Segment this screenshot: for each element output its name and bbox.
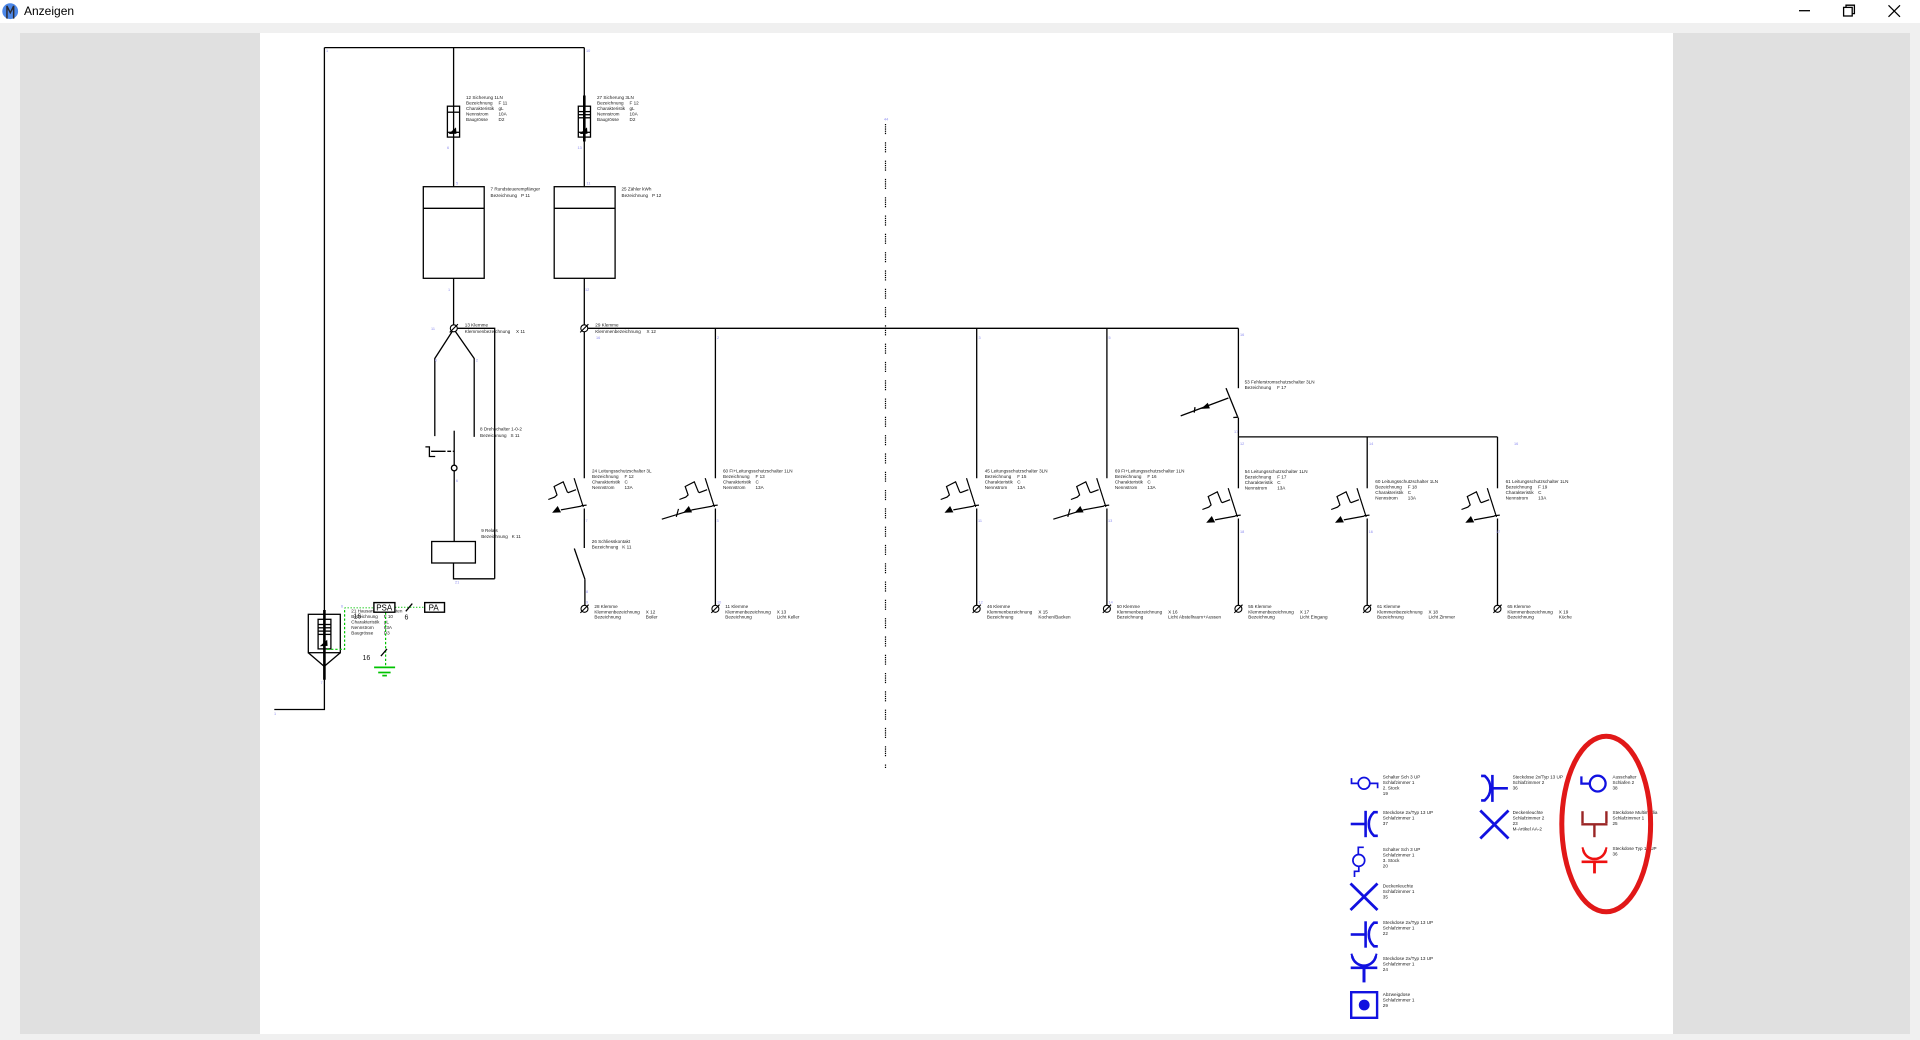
svg-text:69 FI+Leitungsschutzschalter 1: 69 FI+Leitungsschutzschalter 1LN: [1115, 469, 1185, 474]
svg-text:Bezeichnung: Bezeichnung: [1117, 615, 1144, 620]
breaker F16 labels: [1115, 469, 1185, 491]
svg-text:3. Stock: 3. Stock: [1383, 858, 1400, 863]
svg-text:Klemmenbezeichnung: Klemmenbezeichnung: [1248, 609, 1294, 614]
svg-text:Charakteristik: Charakteristik: [466, 106, 495, 111]
svg-text:K 11: K 11: [622, 545, 632, 550]
svg-text:Steckdose 2x/Typ 13 UP: Steckdose 2x/Typ 13 UP: [1383, 810, 1433, 815]
svg-text:6: 6: [447, 146, 449, 150]
svg-text:7 Rundsteuerempfänger: 7 Rundsteuerempfänger: [491, 187, 541, 192]
fuse F12 (3LN thick wire): [578, 96, 590, 142]
svg-text:Bezeichnung: Bezeichnung: [1506, 484, 1533, 489]
PSA box: [374, 603, 395, 613]
svg-text:Charakteristik: Charakteristik: [723, 480, 752, 485]
legend red socket right item3: [1582, 847, 1608, 873]
svg-text:F 17: F 17: [1277, 385, 1287, 390]
svg-text:Schalter Sch 3 UP: Schalter Sch 3 UP: [1383, 775, 1421, 780]
wire bypass from X11 right: [457, 328, 495, 579]
svg-text:5: 5: [456, 182, 458, 186]
svg-text:11 Klemme: 11 Klemme: [725, 604, 748, 609]
svg-text:X 15: X 15: [1038, 609, 1048, 614]
page separator dashed line: [885, 124, 887, 768]
svg-text:Charakteristik: Charakteristik: [1506, 490, 1535, 495]
svg-text:C: C: [1017, 480, 1021, 485]
wire relay out to bypass: [454, 563, 495, 579]
wire left feed vertical: [323, 48, 325, 615]
svg-text:25: 25: [1613, 821, 1619, 826]
svg-text:65 Klemme: 65 Klemme: [1507, 604, 1531, 609]
relay labels: [481, 528, 521, 539]
svg-text:10A: 10A: [499, 112, 508, 117]
svg-text:X 12: X 12: [646, 609, 656, 614]
terminal 29 Klemme X12: [580, 324, 588, 332]
svg-text:Bezeichnung: Bezeichnung: [1377, 615, 1404, 620]
svg-text:29: 29: [1383, 1003, 1389, 1008]
wire branch abstellraum down: [1106, 328, 1108, 478]
svg-text:S 11: S 11: [511, 433, 521, 438]
wire below house connection box: [274, 666, 324, 709]
svg-text:Charakteristik: Charakteristik: [1375, 490, 1404, 495]
wire box P11 to terminal X11: [453, 278, 455, 325]
legend switch Sch3 item1: [1352, 778, 1378, 790]
svg-text:F 16: F 16: [1147, 474, 1157, 479]
svg-text:Schlafzimmer 1: Schlafzimmer 1: [1383, 780, 1415, 785]
svg-text:Bezeichnung: Bezeichnung: [1115, 474, 1142, 479]
svg-text:C: C: [625, 480, 629, 485]
svg-text:14: 14: [1369, 442, 1373, 446]
svg-text:X 16: X 16: [1168, 609, 1178, 614]
svg-text:16: 16: [363, 655, 371, 662]
svg-text:13A: 13A: [1147, 485, 1156, 490]
house connection box outline: [308, 614, 340, 666]
svg-text:Nennstrom: Nennstrom: [1506, 495, 1529, 500]
legend junction box item7: [1351, 992, 1377, 1018]
svg-text:Schlafzimmer 2: Schlafzimmer 2: [1513, 780, 1545, 785]
terminal 65 Klemme X19: [1493, 605, 1501, 613]
svg-text:19: 19: [1383, 791, 1389, 796]
svg-text:Charakteristik: Charakteristik: [1245, 480, 1274, 485]
svg-text:6: 6: [405, 615, 409, 622]
svg-text:Bezeichnung: Bezeichnung: [491, 193, 518, 198]
svg-text:7: 7: [321, 681, 323, 685]
svg-text:2: 2: [476, 359, 478, 363]
svg-text:Schlafzimmer 1: Schlafzimmer 1: [1383, 852, 1415, 857]
wire sub-bus: [1238, 436, 1497, 438]
svg-text:16: 16: [1369, 530, 1373, 534]
svg-text:Nennstrom: Nennstrom: [1375, 495, 1398, 500]
svg-text:Bezeichnung: Bezeichnung: [592, 545, 619, 550]
wire box P12 to terminal X12: [583, 278, 585, 325]
svg-text:X 19: X 19: [1559, 609, 1569, 614]
green dashed link PSA to ground: [385, 613, 387, 667]
svg-text:10: 10: [717, 601, 721, 605]
FI switch F17: [1181, 388, 1239, 417]
wire breaker to terminal keller: [714, 509, 716, 606]
svg-text:Nennstrom: Nennstrom: [1115, 485, 1138, 490]
svg-text:12: 12: [979, 601, 983, 605]
svg-text:29 Klemme: 29 Klemme: [595, 323, 619, 328]
svg-text:F 17: F 17: [1277, 475, 1287, 480]
svg-text:C: C: [756, 480, 760, 485]
svg-text:Licht Keller: Licht Keller: [777, 615, 800, 620]
svg-text:10: 10: [586, 49, 590, 53]
minimize button: [1795, 2, 1815, 22]
svg-text:Schlafzimmer 1: Schlafzimmer 1: [1613, 815, 1645, 820]
svg-text:12 Sicherung 1LN: 12 Sicherung 1LN: [466, 95, 503, 100]
legend multimedia socket right item2: [1581, 811, 1607, 837]
wire distribution bus: [588, 327, 1239, 329]
breaker F17 eingang: [1202, 488, 1240, 523]
svg-text:Nennstrom: Nennstrom: [723, 485, 746, 490]
breaker F19 labels: [1506, 479, 1569, 501]
svg-text:Schlafzimmer 1: Schlafzimmer 1: [1383, 998, 1415, 1003]
svg-text:Schlafen 2: Schlafen 2: [1613, 780, 1635, 785]
svg-text:9: 9: [586, 601, 588, 605]
svg-text:Klemmenbezeichnung: Klemmenbezeichnung: [1507, 609, 1553, 614]
slash on ground link: [381, 649, 387, 656]
breaker F15 labels: [985, 469, 1048, 491]
svg-text:Schalter Sch 3 UP: Schalter Sch 3 UP: [1383, 847, 1421, 852]
close button: [1884, 2, 1904, 22]
svg-text:F 11: F 11: [499, 101, 508, 106]
svg-text:16: 16: [1240, 333, 1244, 337]
svg-text:17: 17: [1234, 430, 1238, 434]
svg-text:Klemmenbezeichnung: Klemmenbezeichnung: [1377, 609, 1423, 614]
terminal 28 Klemme X12 Boiler: [580, 605, 588, 613]
wire drop eingang: [1237, 437, 1239, 488]
svg-text:Kochen/Backen: Kochen/Backen: [1038, 615, 1071, 620]
svg-text:Bezeichnung: Bezeichnung: [480, 433, 507, 438]
svg-text:55 Klemme: 55 Klemme: [1248, 604, 1272, 609]
wire contact to terminal: [584, 579, 586, 605]
svg-text:C: C: [1147, 480, 1151, 485]
breaker F18 labels: [1375, 479, 1438, 501]
svg-text:21: 21: [455, 581, 459, 585]
svg-text:M-Artikel AA-2: M-Artikel AA-2: [1513, 826, 1543, 831]
svg-text:25 Zähler kWh: 25 Zähler kWh: [622, 187, 652, 192]
svg-text:Bezeichnung: Bezeichnung: [1245, 385, 1272, 390]
svg-text:16: 16: [1514, 442, 1518, 446]
svg-text:Charakteristik: Charakteristik: [1115, 480, 1144, 485]
svg-text:23: 23: [1513, 821, 1519, 826]
svg-text:1: 1: [448, 288, 450, 292]
rotary switch S11 lever: [425, 447, 435, 457]
terminal 11 Klemme X13: [711, 605, 719, 613]
FI switch labels: [1245, 379, 1315, 390]
svg-text:Licht Zimmer: Licht Zimmer: [1429, 615, 1456, 620]
terminal 55 Klemme X17: [1234, 605, 1242, 613]
svg-text:27 Sicherung 3LN: 27 Sicherung 3LN: [597, 95, 634, 100]
svg-text:gL: gL: [630, 106, 636, 111]
svg-text:61 Leitungsschutzschalter 1LN: 61 Leitungsschutzschalter 1LN: [1506, 479, 1569, 484]
svg-text:46 Klemme: 46 Klemme: [987, 604, 1011, 609]
svg-text:17: 17: [1496, 530, 1500, 534]
svg-text:16: 16: [596, 336, 600, 340]
terminal 61 Klemme X18: [1363, 605, 1371, 613]
wire bus end down to FI: [1237, 328, 1239, 388]
svg-text:1: 1: [326, 49, 328, 53]
svg-text:Charakteristik: Charakteristik: [985, 480, 1014, 485]
wire breaker to terminal kochen: [976, 509, 978, 606]
svg-text:Baugrösse: Baugrösse: [466, 117, 488, 122]
svg-text:Abzweigdose: Abzweigdose: [1383, 992, 1411, 997]
svg-text:13A: 13A: [1017, 485, 1026, 490]
svg-text:Baugrösse: Baugrösse: [597, 117, 619, 122]
svg-text:Bezeichnung: Bezeichnung: [597, 101, 624, 106]
svg-text:Bezeichnung: Bezeichnung: [1375, 484, 1402, 489]
svg-text:Deckenleuchte: Deckenleuchte: [1513, 810, 1544, 815]
rotary switch labels: [480, 427, 522, 438]
svg-text:X 13: X 13: [777, 609, 787, 614]
svg-text:2: 2: [717, 336, 719, 340]
svg-text:Klemmenbezeichnung: Klemmenbezeichnung: [725, 609, 771, 614]
svg-text:K 11: K 11: [512, 534, 522, 539]
svg-text:14: 14: [1109, 601, 1113, 605]
svg-text:44: 44: [884, 118, 888, 122]
svg-text:Nennstrom: Nennstrom: [466, 112, 489, 117]
wire breaker to terminal zimmer: [1366, 519, 1368, 606]
fuse F11 labels: [466, 95, 508, 122]
breaker F16 abstellraum: [1071, 478, 1109, 513]
svg-text:gL: gL: [499, 106, 505, 111]
svg-text:Küche: Küche: [1559, 615, 1572, 620]
svg-text:Schlafzimmer 1: Schlafzimmer 1: [1383, 889, 1415, 894]
svg-text:PSA: PSA: [376, 604, 393, 613]
NO contact labels: [592, 539, 632, 550]
svg-text:60 FI+Leitungsschutzschalter 1: 60 FI+Leitungsschutzschalter 1LN: [723, 469, 793, 474]
svg-text:26 Schliesskontakt: 26 Schliesskontakt: [592, 539, 631, 544]
svg-text:F 15: F 15: [1017, 474, 1027, 479]
svg-text:C: C: [1538, 490, 1542, 495]
terminal 46 Klemme X15: [973, 605, 981, 613]
svg-text:Licht Abstellraum+Aussen: Licht Abstellraum+Aussen: [1168, 615, 1221, 620]
wire drop kueche: [1497, 437, 1499, 488]
svg-text:54 Leitungsschutzschalter 1LN: 54 Leitungsschutzschalter 1LN: [1245, 469, 1308, 474]
svg-text:20: 20: [1383, 863, 1389, 868]
white drawing page: [260, 33, 1673, 1034]
svg-text:Nennstrom: Nennstrom: [597, 112, 620, 117]
rotary switch S11 link dashes: [431, 450, 454, 452]
svg-text:61 Klemme: 61 Klemme: [1377, 604, 1401, 609]
svg-text:D2: D2: [499, 117, 505, 122]
svg-text:Nennstrom: Nennstrom: [592, 485, 615, 490]
svg-text:Boiler: Boiler: [646, 615, 658, 620]
svg-text:3: 3: [979, 336, 981, 340]
svg-text:Bezeichnung: Bezeichnung: [466, 101, 493, 106]
svg-text:6: 6: [456, 479, 458, 483]
svg-text:0: 0: [435, 359, 437, 363]
svg-text:Bezeichnung: Bezeichnung: [1507, 615, 1534, 620]
wire FI to sub-bus: [1237, 418, 1239, 437]
svg-text:Ausschalter: Ausschalter: [1613, 775, 1637, 780]
svg-text:13: 13: [578, 146, 582, 150]
svg-text:13 Klemme: 13 Klemme: [465, 323, 489, 328]
svg-text:13A: 13A: [1408, 495, 1417, 500]
rotary switch S11 pivot: [451, 465, 457, 471]
breaker F13 FI tail: [662, 509, 692, 519]
terminal X11 labels: [465, 323, 526, 334]
restore button: [1840, 2, 1860, 22]
svg-text:38: 38: [1613, 786, 1619, 791]
svg-text:Deckenleuchte: Deckenleuchte: [1383, 884, 1414, 889]
svg-text:Bezeichnung: Bezeichnung: [594, 615, 621, 620]
svg-text:12: 12: [1240, 442, 1244, 446]
svg-text:gL: gL: [384, 620, 390, 625]
title bar: [0, 0, 1920, 23]
wire breaker to terminal eingang: [1237, 519, 1239, 606]
wire V-split right from X11: [455, 332, 474, 437]
house fuse F10: [318, 610, 331, 680]
svg-text:9 Relais: 9 Relais: [481, 528, 498, 533]
svg-text:5: 5: [1109, 336, 1111, 340]
svg-text:Bezeichnung: Bezeichnung: [481, 534, 508, 539]
svg-text:Klemmenbezeichnung: Klemmenbezeichnung: [987, 609, 1033, 614]
terminal X12 labels: [595, 323, 656, 334]
svg-text:Charakteristik: Charakteristik: [351, 620, 380, 625]
breaker F19 kueche: [1462, 488, 1500, 523]
wire drop zimmer: [1366, 437, 1368, 488]
breaker F18 zimmer: [1331, 488, 1369, 523]
rotary switch S11 stem: [453, 431, 455, 466]
svg-text:Nennstrom: Nennstrom: [351, 625, 374, 630]
wire top horizontal feed: [324, 47, 584, 49]
fuse F11: [447, 106, 459, 137]
svg-text:22: 22: [1383, 931, 1389, 936]
svg-text:Steckdose 2x/Typ 13 UP: Steckdose 2x/Typ 13 UP: [1383, 956, 1433, 961]
svg-text:11: 11: [587, 182, 591, 186]
svg-text:X 17: X 17: [1300, 609, 1310, 614]
wire V-split left from X11: [435, 332, 452, 437]
green dotted link PSA to PA: [395, 606, 424, 608]
svg-text:6: 6: [341, 605, 343, 609]
breaker F13 keller: [679, 478, 717, 513]
fuse F12 labels: [597, 95, 639, 122]
breaker F15 kochen: [941, 478, 979, 513]
box P12 Zaehler kWh: [554, 187, 615, 279]
svg-text:Schlafzimmer 2: Schlafzimmer 2: [1513, 815, 1545, 820]
terminal 13 Klemme X11: [450, 324, 458, 332]
breaker F12 labels: [592, 469, 652, 491]
svg-text:18: 18: [1240, 530, 1244, 534]
svg-text:Licht Eingang: Licht Eingang: [1300, 615, 1328, 620]
svg-text:45 Leitungsschutzschalter 3LN: 45 Leitungsschutzschalter 3LN: [985, 469, 1048, 474]
breaker F13 labels: [723, 469, 793, 491]
wire branch kochen down: [976, 328, 978, 478]
relay K11: [432, 542, 476, 564]
breaker F16 FI tail: [1053, 509, 1083, 519]
svg-text:Charakteristik: Charakteristik: [592, 480, 621, 485]
svg-text:C: C: [1277, 480, 1281, 485]
svg-text:D2: D2: [630, 117, 636, 122]
svg-text:PA: PA: [429, 604, 440, 613]
svg-text:Steckdose 2x/Typ 13 UP: Steckdose 2x/Typ 13 UP: [1513, 775, 1563, 780]
svg-text:P 12: P 12: [652, 193, 662, 198]
svg-text:13A: 13A: [1277, 486, 1286, 491]
svg-text:Schlafzimmer 1: Schlafzimmer 1: [1383, 925, 1415, 930]
svg-text:24 Leitungsschutzschalter 3L: 24 Leitungsschutzschalter 3L: [592, 469, 652, 474]
svg-text:8 Drehschalter 1-0-2: 8 Drehschalter 1-0-2: [480, 427, 522, 432]
svg-text:60 Leitungsschutzschalter 1LN: 60 Leitungsschutzschalter 1LN: [1375, 479, 1438, 484]
svg-text:Bezeichnung: Bezeichnung: [1245, 475, 1272, 480]
wire branch F11 vertical: [453, 48, 455, 187]
svg-text:7: 7: [586, 519, 588, 523]
svg-text:Klemmenbezeichnung: Klemmenbezeichnung: [1117, 609, 1163, 614]
svg-text:35: 35: [1383, 895, 1389, 900]
legend: [1351, 736, 1658, 1018]
svg-text:10A: 10A: [630, 112, 639, 117]
svg-text:Klemmenbezeichnung: Klemmenbezeichnung: [594, 609, 640, 614]
svg-text:Bezeichnung: Bezeichnung: [622, 193, 649, 198]
red highlight ellipse: [1562, 736, 1651, 912]
svg-text:53 Fehlerstromschutzschalter 3: 53 Fehlerstromschutzschalter 3LN: [1245, 379, 1315, 384]
svg-text:Nennstrom: Nennstrom: [1245, 486, 1268, 491]
wire pivot to relay: [453, 471, 455, 542]
svg-text:16: 16: [354, 613, 362, 620]
svg-text:13A: 13A: [1538, 495, 1547, 500]
svg-text:F 12: F 12: [630, 101, 640, 106]
svg-text:Charakteristik: Charakteristik: [597, 106, 626, 111]
svg-text:D3: D3: [384, 631, 390, 636]
legend switch Sch3 item3: [1353, 847, 1365, 877]
green dashed link from fuse to PSA: [327, 608, 345, 649]
svg-text:Bezeichnung: Bezeichnung: [723, 474, 750, 479]
legend socket item5: [1351, 921, 1378, 947]
svg-text:3: 3: [717, 519, 719, 523]
svg-text:Bezeichnung: Bezeichnung: [1248, 615, 1275, 620]
svg-text:13A: 13A: [625, 485, 634, 490]
svg-text:X 12: X 12: [647, 329, 657, 334]
wire breaker to terminal kueche: [1497, 519, 1499, 606]
svg-text:Schlafzimmer 1: Schlafzimmer 1: [1383, 962, 1415, 967]
svg-text:X 18: X 18: [1429, 609, 1439, 614]
svg-text:F 18: F 18: [1408, 484, 1418, 489]
svg-text:Bezeichnung: Bezeichnung: [987, 615, 1014, 620]
svg-text:Bezeichnung: Bezeichnung: [985, 474, 1012, 479]
svg-text:37: 37: [1383, 821, 1389, 826]
wire breaker to terminal abstellraum: [1106, 509, 1108, 606]
box P12 labels: [622, 187, 662, 199]
breaker F12 boiler: [548, 478, 586, 513]
terminal 50 Klemme X16: [1103, 605, 1111, 613]
breaker F17 labels: [1245, 469, 1308, 491]
wire breaker to contact: [583, 509, 585, 549]
svg-text:28 Klemme: 28 Klemme: [594, 604, 618, 609]
app icon: [2, 2, 26, 26]
legend off-switch right item1: [1581, 776, 1605, 792]
svg-text:50 Klemme: 50 Klemme: [1117, 604, 1141, 609]
svg-text:F 13: F 13: [756, 474, 766, 479]
svg-text:F 12: F 12: [625, 474, 635, 479]
svg-text:Baugrösse: Baugrösse: [351, 631, 373, 636]
green ground symbol: [374, 667, 395, 675]
legend lamp mid item2: [1480, 811, 1508, 839]
box P11 Rundsteuerempfaenger: [423, 187, 484, 279]
svg-text:Steckdose 2x/Typ 13 UP: Steckdose 2x/Typ 13 UP: [1383, 920, 1433, 925]
slash on PSA-PA link: [406, 604, 413, 612]
svg-text:X 11: X 11: [516, 329, 526, 334]
svg-text:Klemmenbezeichnung: Klemmenbezeichnung: [595, 329, 641, 334]
svg-text:P 11: P 11: [521, 193, 530, 198]
svg-text:13A: 13A: [756, 485, 765, 490]
svg-text:C: C: [1408, 490, 1412, 495]
svg-text:Schlafzimmer 1: Schlafzimmer 1: [1383, 815, 1415, 820]
legend lamp item4: [1351, 884, 1378, 911]
wire branch F12 vertical: [583, 48, 585, 187]
svg-text:13: 13: [1108, 519, 1112, 523]
legend socket down item6: [1351, 954, 1378, 983]
svg-text:Nennstrom: Nennstrom: [985, 485, 1008, 490]
svg-text:36: 36: [1613, 851, 1619, 856]
svg-text:11: 11: [431, 327, 435, 331]
